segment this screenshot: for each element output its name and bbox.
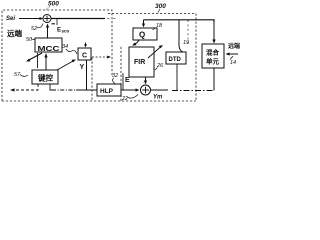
svg-text:远端: 远端 bbox=[7, 28, 22, 38]
dashed enclosure 500 (left box, stepped border) bbox=[2, 10, 112, 101]
shared bottom dashed border bbox=[2, 100, 196, 102]
wire C box down to HLP input line bbox=[86, 60, 88, 90]
svg-text:DTD: DTD bbox=[169, 57, 182, 63]
svg-text:19: 19 bbox=[183, 40, 189, 46]
wire mixing unit output down bbox=[213, 68, 215, 91]
dashed control wire from C box to right border, arrow bbox=[92, 56, 108, 58]
box 57 (keying block, Chinese) bbox=[32, 70, 58, 84]
wire main line into mixing unit, arrow down bbox=[213, 20, 215, 40]
wire HLP to adder 22, arrow right bbox=[121, 89, 137, 91]
faint continuation dashes crossing border bbox=[107, 18, 119, 20]
svg-text:300: 300 bbox=[155, 3, 166, 10]
svg-text:单元: 单元 bbox=[206, 57, 220, 66]
diagonal wire keying box to C box bbox=[57, 61, 74, 71]
box 50 (MCC block) bbox=[35, 38, 62, 52]
box mixing unit (Chinese: mix unit) bbox=[202, 44, 224, 68]
wire keying box down to HLP line bbox=[50, 84, 52, 90]
box 32 (HLP filter) bbox=[97, 84, 121, 96]
svg-text:14: 14 bbox=[230, 60, 236, 66]
adaptive arrow across FIR corner bbox=[148, 47, 161, 59]
wire main line down to DTD bbox=[179, 20, 183, 52]
box DTD (double talk detector) bbox=[166, 52, 186, 64]
svg-text:MCC: MCC bbox=[38, 46, 60, 53]
box C (control block) bbox=[78, 48, 91, 60]
svg-text:18: 18 bbox=[156, 23, 163, 29]
svg-text:E: E bbox=[57, 28, 61, 34]
svg-text:C: C bbox=[82, 53, 87, 60]
box 26 (FIR filter) bbox=[129, 47, 154, 77]
wire keying box up to MCC, arrow up bbox=[45, 55, 47, 70]
wire tick into C box top bbox=[85, 43, 87, 45]
svg-text:sco: sco bbox=[62, 29, 70, 34]
wire MCC bottom-left to keying box top bbox=[37, 53, 39, 68]
svg-text:Q: Q bbox=[139, 31, 145, 40]
svg-text:HLP: HLP bbox=[100, 88, 114, 95]
svg-text:50: 50 bbox=[26, 37, 33, 43]
wire far-end input into mixing unit, arrow left bbox=[228, 53, 238, 55]
node tick + signal label Esco bbox=[56, 19, 58, 25]
svg-text:Y: Y bbox=[80, 64, 85, 71]
wire FIR down to adder 22, arrow down bbox=[145, 77, 147, 81]
svg-text:34: 34 bbox=[62, 44, 68, 50]
wire adder output (Esco) bbox=[51, 18, 105, 20]
svg-text:远端: 远端 bbox=[228, 42, 240, 50]
box 18 (Q block) bbox=[133, 28, 157, 40]
adder 22 (summing circle) bbox=[141, 85, 151, 95]
minus sign at adder lower input bbox=[52, 23, 56, 25]
svg-text:FIR: FIR bbox=[134, 59, 145, 66]
wire adder 22 output to mixing unit bottom line bbox=[151, 89, 169, 91]
svg-text:混合: 混合 bbox=[206, 48, 220, 57]
svg-text:Ym: Ym bbox=[153, 95, 163, 101]
wire keying box down-left dashed output arrow bbox=[14, 84, 38, 90]
wire main line down into Q box, arrow down bbox=[143, 20, 145, 24]
short vertical connector near E bbox=[122, 73, 124, 90]
wire main line in block 300 to mixing unit bbox=[144, 20, 215, 22]
curved wire Q box to FIR box bbox=[133, 40, 139, 45]
svg-text:Sei: Sei bbox=[6, 16, 15, 22]
arrow MCC output down-left bbox=[28, 53, 42, 61]
wire Sei to adder bbox=[19, 18, 41, 20]
svg-text:57: 57 bbox=[14, 72, 21, 78]
wire MCC to adder (subtract input), arrow up bbox=[47, 25, 49, 38]
svg-text:22: 22 bbox=[121, 96, 128, 102]
svg-text:32: 32 bbox=[112, 73, 118, 79]
svg-text:键控: 键控 bbox=[37, 73, 53, 83]
adder U52 (summing circle) bbox=[43, 15, 51, 23]
wire DTD down to bottom line bbox=[176, 64, 178, 90]
dashed enclosure 300 (right box) bbox=[108, 14, 196, 102]
svg-text:E: E bbox=[125, 77, 130, 84]
faint dashed vertical near DTD right bbox=[187, 20, 189, 46]
svg-text:52: 52 bbox=[31, 26, 37, 32]
